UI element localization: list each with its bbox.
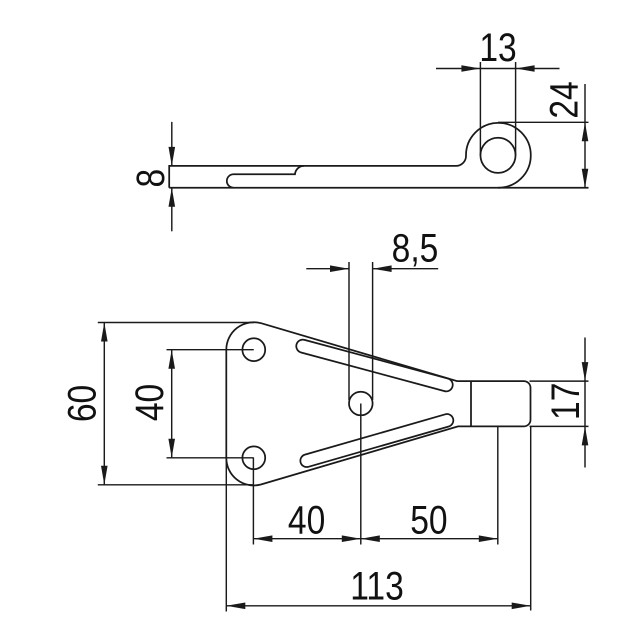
svg-text:60: 60 [60, 385, 104, 422]
svg-text:8: 8 [128, 169, 172, 188]
svg-text:40: 40 [288, 498, 325, 542]
svg-text:50: 50 [410, 498, 447, 542]
svg-text:13: 13 [479, 25, 516, 69]
svg-text:8,5: 8,5 [392, 226, 439, 270]
svg-text:113: 113 [350, 564, 404, 608]
svg-text:24: 24 [542, 81, 586, 118]
svg-text:40: 40 [127, 384, 171, 421]
svg-text:17: 17 [543, 383, 587, 420]
